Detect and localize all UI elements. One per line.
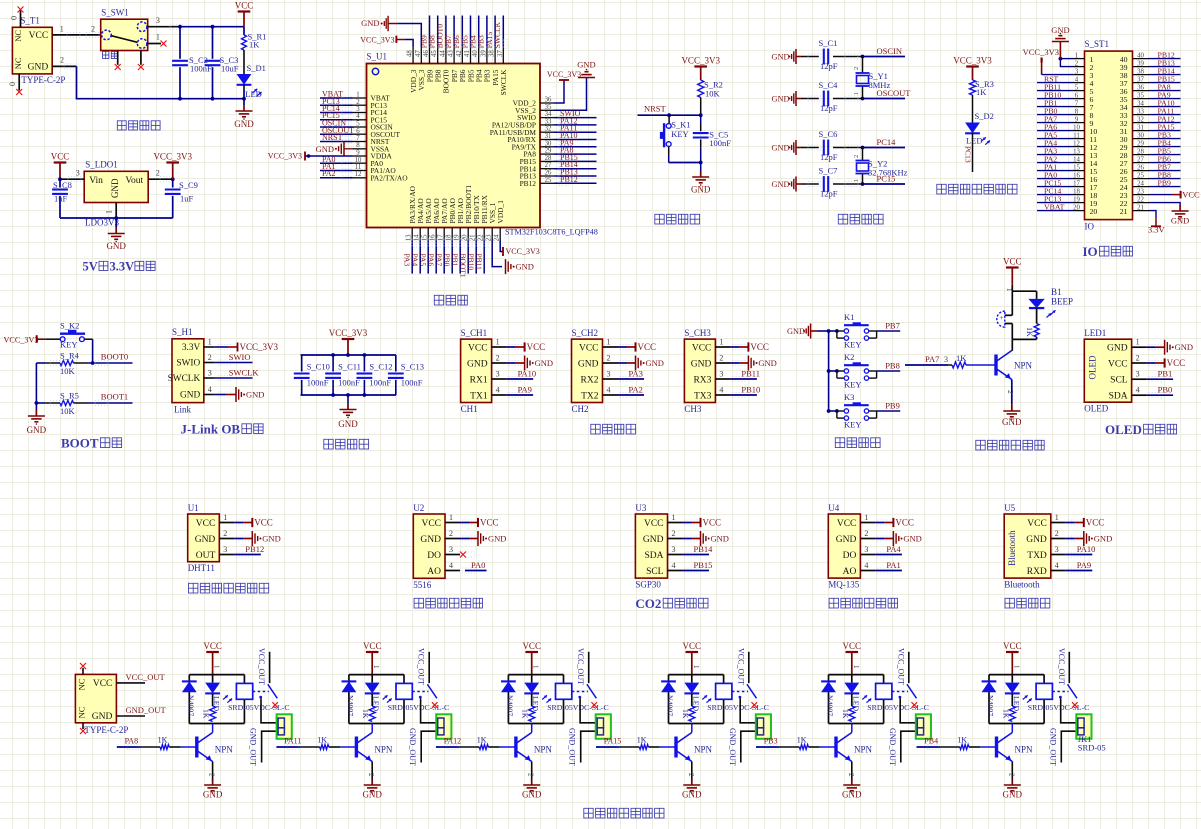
- svg-text:2: 2: [60, 56, 64, 65]
- svg-text:PA4: PA4: [410, 254, 419, 267]
- svg-text:6: 6: [356, 128, 360, 135]
- svg-text:GND: GND: [711, 534, 729, 544]
- svg-text:NC: NC: [76, 678, 86, 690]
- svg-text:VCC: VCC: [51, 152, 70, 162]
- svg-text:TXD: TXD: [1027, 551, 1047, 561]
- svg-text:3: 3: [607, 370, 611, 379]
- svg-text:GND: GND: [577, 60, 595, 70]
- svg-text:VCC_3V3: VCC_3V3: [681, 56, 720, 66]
- svg-text:VCC: VCC: [1167, 358, 1186, 368]
- svg-text:SDA: SDA: [1109, 392, 1128, 402]
- svg-text:PB7: PB7: [885, 321, 900, 331]
- svg-text:8MHz: 8MHz: [869, 80, 891, 90]
- svg-text:10uF: 10uF: [221, 63, 239, 73]
- svg-text:5516: 5516: [413, 580, 432, 590]
- svg-text:VCC: VCC: [579, 343, 599, 353]
- svg-text:15: 15: [422, 234, 429, 241]
- svg-text:40: 40: [1137, 52, 1144, 59]
- svg-text:GND: GND: [106, 241, 126, 251]
- svg-text:1: 1: [692, 665, 700, 669]
- svg-text:1: 1: [356, 92, 359, 99]
- svg-text:SWIO: SWIO: [229, 352, 251, 362]
- svg-text:1K: 1K: [957, 736, 967, 745]
- svg-text:LDO3V3: LDO3V3: [85, 218, 119, 228]
- svg-text:37: 37: [497, 50, 504, 57]
- svg-text:42: 42: [456, 50, 463, 57]
- svg-text:15: 15: [1073, 164, 1080, 171]
- svg-text:PB1: PB1: [1158, 369, 1173, 379]
- svg-text:1: 1: [864, 513, 868, 522]
- svg-text:8: 8: [1075, 108, 1079, 115]
- svg-text:Bluetooth: Bluetooth: [1004, 580, 1040, 590]
- svg-text:Vin: Vin: [89, 176, 103, 186]
- svg-text:LED: LED: [245, 89, 262, 99]
- svg-text:MQ-135: MQ-135: [828, 580, 859, 590]
- svg-text:VCC_OUT: VCC_OUT: [896, 648, 905, 685]
- svg-text:5: 5: [1075, 84, 1079, 91]
- svg-text:PB8: PB8: [885, 361, 900, 371]
- svg-text:RX2: RX2: [581, 375, 599, 385]
- svg-text:PC14: PC14: [877, 137, 897, 147]
- svg-text:16: 16: [1073, 172, 1080, 179]
- svg-text:GND: GND: [772, 144, 790, 153]
- svg-text:VCC: VCC: [235, 1, 254, 11]
- svg-text:2: 2: [1007, 773, 1015, 777]
- svg-text:PA10: PA10: [518, 369, 537, 379]
- svg-text:VCC_3V3: VCC_3V3: [1023, 47, 1059, 57]
- svg-text:PB12: PB12: [520, 179, 537, 188]
- svg-text:LED: LED: [966, 136, 983, 146]
- svg-text:1K: 1K: [841, 709, 850, 719]
- svg-text:SRD-05VDC-SL-C: SRD-05VDC-SL-C: [707, 703, 769, 712]
- svg-text:3.3V: 3.3V: [1148, 225, 1166, 235]
- svg-text:GND: GND: [92, 712, 113, 722]
- svg-text:KEY: KEY: [844, 420, 861, 430]
- svg-text:GND_OUT: GND_OUT: [888, 728, 897, 766]
- svg-text:1K: 1K: [249, 39, 260, 49]
- svg-text:RX3: RX3: [693, 375, 711, 385]
- svg-text:GND: GND: [691, 185, 711, 195]
- svg-text:27: 27: [545, 162, 552, 169]
- svg-text:GND_OUT: GND_OUT: [249, 728, 258, 766]
- svg-text:B1: B1: [1051, 287, 1062, 297]
- svg-text:2: 2: [449, 529, 453, 538]
- svg-text:PB10: PB10: [741, 385, 760, 395]
- svg-text:GND: GND: [842, 790, 862, 800]
- svg-text:S_C12: S_C12: [369, 362, 392, 372]
- svg-text:S_LDO1: S_LDO1: [85, 159, 118, 169]
- svg-text:2: 2: [156, 169, 160, 178]
- svg-text:3: 3: [208, 369, 212, 378]
- svg-text:SWCLK: SWCLK: [499, 69, 508, 96]
- svg-text:PB12: PB12: [560, 175, 578, 184]
- svg-text:32.768KHz: 32.768KHz: [868, 168, 908, 178]
- svg-text:2: 2: [1075, 60, 1079, 67]
- svg-text:1: 1: [223, 513, 227, 522]
- svg-text:SRD-05VDC-SL-C: SRD-05VDC-SL-C: [388, 703, 450, 712]
- svg-text:17: 17: [438, 234, 445, 241]
- svg-text:23: 23: [486, 234, 493, 241]
- svg-text:4: 4: [672, 561, 676, 570]
- svg-text:OUT: OUT: [196, 551, 216, 561]
- svg-text:PA2/TX/AO: PA2/TX/AO: [371, 173, 409, 182]
- svg-text:46: 46: [423, 50, 430, 57]
- svg-text:3: 3: [356, 106, 360, 113]
- svg-text:PA3: PA3: [402, 254, 411, 267]
- svg-text:0: 0: [10, 16, 19, 20]
- svg-text:8: 8: [356, 142, 360, 149]
- svg-text:3: 3: [1075, 68, 1079, 75]
- svg-text:GND_OUT: GND_OUT: [728, 728, 737, 766]
- svg-text:U4: U4: [828, 503, 839, 513]
- svg-text:VCC_3V3: VCC_3V3: [506, 247, 540, 256]
- svg-text:33: 33: [545, 118, 552, 125]
- svg-text:VCC_OUT: VCC_OUT: [126, 672, 166, 682]
- svg-text:4: 4: [719, 386, 723, 395]
- svg-text:S_U1: S_U1: [367, 52, 388, 62]
- svg-text:GND: GND: [1171, 216, 1189, 226]
- svg-text:VDD_1: VDD_1: [496, 200, 505, 224]
- svg-text:VCC: VCC: [692, 343, 712, 353]
- svg-text:3: 3: [1055, 545, 1059, 554]
- svg-text:2: 2: [687, 773, 695, 777]
- svg-text:24: 24: [494, 234, 501, 241]
- svg-text:12: 12: [355, 171, 362, 178]
- svg-text:2: 2: [356, 99, 360, 106]
- svg-text:PA9: PA9: [1077, 560, 1091, 570]
- svg-text:DO: DO: [843, 551, 857, 561]
- svg-text:NRST: NRST: [322, 133, 343, 142]
- svg-text:38: 38: [489, 50, 496, 57]
- svg-text:1: 1: [853, 92, 860, 95]
- svg-text:10: 10: [355, 157, 362, 164]
- svg-text:GND: GND: [535, 358, 553, 368]
- svg-text:VCC: VCC: [196, 519, 216, 529]
- svg-text:N4007: N4007: [505, 695, 514, 716]
- svg-text:24: 24: [1137, 180, 1144, 187]
- svg-text:4: 4: [208, 385, 212, 394]
- svg-text:2: 2: [672, 529, 676, 538]
- svg-text:GND: GND: [203, 790, 223, 800]
- svg-text:VCC: VCC: [29, 31, 49, 41]
- svg-text:TX3: TX3: [694, 391, 712, 401]
- svg-text:38: 38: [1137, 68, 1144, 75]
- svg-text:3.3V: 3.3V: [182, 343, 201, 353]
- svg-text:PB9: PB9: [885, 401, 900, 411]
- svg-text:PA7: PA7: [434, 254, 443, 267]
- svg-text:VCC: VCC: [644, 519, 664, 529]
- svg-text:3: 3: [223, 545, 227, 554]
- svg-text:31: 31: [545, 133, 552, 140]
- svg-text:GND: GND: [420, 535, 441, 545]
- svg-text:NPN: NPN: [854, 744, 873, 754]
- svg-text:7: 7: [1075, 100, 1079, 107]
- svg-text:GND: GND: [691, 359, 712, 369]
- svg-text:KEY: KEY: [671, 129, 688, 139]
- svg-text:1K: 1K: [797, 736, 807, 745]
- svg-text:2: 2: [1006, 390, 1015, 394]
- svg-text:S_ST1: S_ST1: [1085, 39, 1110, 49]
- svg-text:SWCLK: SWCLK: [168, 374, 201, 384]
- svg-text:VCC: VCC: [527, 342, 546, 352]
- svg-text:2: 2: [864, 529, 868, 538]
- svg-text:GND_OUT: GND_OUT: [568, 728, 577, 766]
- svg-text:2: 2: [1136, 354, 1140, 363]
- svg-text:1: 1: [60, 25, 64, 34]
- svg-text:10K: 10K: [60, 406, 76, 416]
- svg-text:1: 1: [719, 338, 723, 347]
- svg-text:Bluetooth: Bluetooth: [1007, 530, 1017, 566]
- svg-text:S_CH3: S_CH3: [684, 328, 711, 338]
- svg-text:1: 1: [372, 665, 380, 669]
- svg-text:PB9: PB9: [1158, 179, 1172, 188]
- svg-text:OLED: OLED: [1087, 355, 1097, 379]
- svg-text:VCC_OUT: VCC_OUT: [1057, 648, 1066, 685]
- svg-text:TX1: TX1: [470, 391, 488, 401]
- svg-text:GND: GND: [772, 95, 790, 104]
- svg-text:GND: GND: [516, 262, 534, 272]
- svg-text:PB1: PB1: [450, 254, 459, 267]
- svg-text:S_C11: S_C11: [338, 362, 361, 372]
- svg-text:13: 13: [406, 234, 413, 241]
- svg-text:19: 19: [454, 234, 461, 241]
- svg-text:GND: GND: [316, 144, 334, 154]
- svg-text:1: 1: [852, 665, 860, 669]
- svg-text:S_CH1: S_CH1: [461, 328, 488, 338]
- svg-text:NC: NC: [76, 706, 86, 718]
- svg-text:BOOT1: BOOT1: [101, 392, 128, 402]
- svg-text:S_SW1: S_SW1: [101, 8, 129, 18]
- svg-text:31: 31: [1137, 124, 1144, 131]
- svg-text:GND: GND: [361, 18, 379, 28]
- svg-text:N4007: N4007: [666, 695, 675, 716]
- svg-text:33: 33: [1137, 108, 1144, 115]
- svg-text:16: 16: [430, 234, 437, 241]
- svg-text:9: 9: [356, 150, 360, 157]
- svg-text:K1: K1: [844, 312, 854, 322]
- svg-text:1K: 1K: [477, 736, 487, 745]
- svg-text:KEY: KEY: [844, 340, 861, 350]
- svg-text:12pF: 12pF: [820, 189, 838, 199]
- svg-text:S_C4: S_C4: [819, 80, 839, 90]
- svg-text:PB12: PB12: [245, 544, 264, 554]
- svg-text:1: 1: [1055, 513, 1059, 522]
- svg-text:4: 4: [1075, 76, 1079, 83]
- svg-text:VCC: VCC: [1003, 257, 1022, 267]
- svg-text:1K: 1K: [637, 736, 647, 745]
- svg-text:13: 13: [1073, 148, 1080, 155]
- svg-text:GND_OUT: GND_OUT: [1048, 728, 1057, 766]
- svg-text:44: 44: [439, 50, 446, 57]
- svg-text:VCC: VCC: [254, 518, 273, 528]
- svg-text:PA10: PA10: [1077, 544, 1096, 554]
- svg-text:1uF: 1uF: [180, 194, 194, 204]
- svg-text:VCC_OUT: VCC_OUT: [736, 648, 745, 685]
- svg-text:1K: 1K: [681, 709, 690, 719]
- svg-text:1: 1: [1012, 665, 1020, 669]
- svg-text:PA6: PA6: [426, 254, 435, 267]
- svg-text:AO: AO: [427, 567, 441, 577]
- svg-text:SWCLK: SWCLK: [229, 368, 260, 378]
- svg-text:2: 2: [527, 773, 535, 777]
- svg-text:VBAT: VBAT: [1044, 203, 1065, 212]
- svg-text:IO: IO: [1085, 222, 1095, 232]
- svg-text:20: 20: [1090, 207, 1098, 216]
- svg-text:20: 20: [462, 234, 469, 241]
- svg-text:IO: IO: [1083, 244, 1098, 259]
- svg-text:26: 26: [1137, 164, 1144, 171]
- svg-text:VCC_3V3: VCC_3V3: [329, 328, 368, 338]
- svg-text:SDA: SDA: [644, 551, 663, 561]
- svg-text:10K: 10K: [60, 366, 76, 376]
- svg-text:1: 1: [1136, 338, 1140, 347]
- svg-text:1: 1: [496, 338, 500, 347]
- svg-text:100nF: 100nF: [307, 378, 329, 388]
- svg-text:NPN: NPN: [1015, 744, 1034, 754]
- svg-text:37: 37: [1137, 76, 1144, 83]
- svg-text:VCC: VCC: [638, 342, 657, 352]
- svg-text:26: 26: [545, 170, 552, 177]
- svg-text:K2: K2: [844, 352, 854, 362]
- svg-text:GND: GND: [110, 178, 120, 198]
- svg-text:9: 9: [1075, 116, 1079, 123]
- svg-text:10: 10: [1073, 124, 1080, 131]
- svg-text:SRD-05VDC-SL-C: SRD-05VDC-SL-C: [867, 703, 929, 712]
- svg-text:PB11: PB11: [741, 369, 760, 379]
- svg-text:RXD: RXD: [1027, 567, 1047, 577]
- svg-text:S_D1: S_D1: [247, 63, 266, 73]
- svg-text:12pF: 12pF: [820, 152, 838, 162]
- svg-text:S_C6: S_C6: [819, 129, 838, 139]
- svg-text:N4007: N4007: [986, 695, 995, 716]
- svg-text:1: 1: [1005, 288, 1013, 292]
- svg-text:VCC_OUT: VCC_OUT: [576, 648, 585, 685]
- svg-text:S_C1: S_C1: [819, 38, 838, 48]
- svg-text:5V: 5V: [83, 260, 98, 274]
- svg-text:GND_OUT: GND_OUT: [126, 705, 167, 715]
- svg-text:N4007: N4007: [826, 695, 835, 716]
- svg-text:S_R4: S_R4: [60, 351, 80, 361]
- svg-text:1: 1: [213, 665, 221, 669]
- svg-text:34: 34: [1137, 100, 1144, 107]
- svg-text:J-Link OB: J-Link OB: [181, 422, 241, 437]
- svg-text:VCC: VCC: [468, 343, 488, 353]
- svg-text:21: 21: [1120, 207, 1128, 216]
- svg-text:+: +: [1000, 314, 1004, 322]
- svg-text:DO: DO: [427, 551, 441, 561]
- svg-text:32: 32: [1137, 116, 1144, 123]
- svg-text:GND: GND: [772, 53, 790, 62]
- svg-text:PB15: PB15: [694, 560, 713, 570]
- svg-text:GND: GND: [1003, 790, 1023, 800]
- svg-text:3.3V: 3.3V: [110, 260, 135, 274]
- svg-text:1K: 1K: [1001, 709, 1010, 719]
- svg-text:1: 1: [156, 33, 160, 42]
- svg-text:100nF: 100nF: [401, 378, 423, 388]
- svg-text:25: 25: [1137, 172, 1144, 179]
- svg-text:GND: GND: [646, 358, 664, 368]
- svg-text:S_C7: S_C7: [819, 166, 838, 176]
- svg-text:GND: GND: [682, 790, 702, 800]
- svg-text:GND: GND: [195, 535, 216, 545]
- svg-text:1K: 1K: [361, 709, 370, 719]
- svg-text:25: 25: [545, 177, 552, 184]
- svg-text:12: 12: [1073, 140, 1080, 147]
- svg-text:GND_OUT: GND_OUT: [408, 728, 417, 766]
- svg-text:PA11: PA11: [284, 737, 301, 746]
- svg-text:4: 4: [496, 386, 500, 395]
- svg-text:NRST: NRST: [644, 104, 667, 114]
- svg-text:VCC_3V3: VCC_3V3: [547, 70, 581, 79]
- svg-text:GND: GND: [758, 358, 776, 368]
- svg-text:PA3: PA3: [629, 369, 643, 379]
- svg-text:S_D2: S_D2: [975, 111, 994, 121]
- svg-text:GND: GND: [578, 359, 599, 369]
- svg-text:PA0: PA0: [471, 560, 485, 570]
- svg-text:LED1: LED1: [1084, 328, 1106, 338]
- svg-text:45: 45: [431, 50, 438, 57]
- svg-text:STM32F103C8T6_LQFP48: STM32F103C8T6_LQFP48: [505, 228, 598, 237]
- svg-text:GND: GND: [262, 534, 280, 544]
- svg-text:PC13: PC13: [964, 146, 973, 163]
- svg-text:1: 1: [853, 179, 860, 182]
- svg-text:KEY: KEY: [844, 380, 861, 390]
- svg-text:PB0: PB0: [1158, 385, 1173, 395]
- svg-text:17: 17: [1073, 180, 1080, 187]
- svg-text:3: 3: [672, 545, 676, 554]
- svg-text:VCC_OUT: VCC_OUT: [417, 648, 426, 685]
- svg-text:GND: GND: [787, 327, 805, 336]
- svg-text:2: 2: [208, 773, 216, 777]
- svg-text:GND: GND: [234, 119, 254, 129]
- svg-text:U3: U3: [635, 503, 646, 513]
- svg-text:RX1: RX1: [470, 375, 488, 385]
- svg-text:GND: GND: [1107, 344, 1128, 354]
- svg-text:1K: 1K: [1025, 327, 1034, 337]
- svg-text:1K: 1K: [956, 353, 967, 363]
- svg-text:VCC: VCC: [522, 641, 541, 651]
- svg-text:VCC_3V3: VCC_3V3: [360, 36, 394, 45]
- svg-text:21: 21: [1137, 204, 1144, 211]
- svg-text:PA2: PA2: [322, 169, 336, 178]
- svg-text:21: 21: [470, 235, 477, 242]
- svg-text:VCC: VCC: [363, 641, 382, 651]
- svg-text:TX2: TX2: [581, 391, 599, 401]
- svg-text:2: 2: [847, 773, 855, 777]
- svg-text:12pF: 12pF: [820, 61, 838, 71]
- svg-text:39: 39: [480, 50, 487, 57]
- svg-text:SRD-05VDC-SL-C: SRD-05VDC-SL-C: [1028, 703, 1090, 712]
- svg-text:NPN: NPN: [694, 744, 713, 754]
- svg-text:100nF: 100nF: [709, 138, 731, 148]
- svg-text:20: 20: [1073, 204, 1080, 211]
- svg-text:TYPE-C-2P: TYPE-C-2P: [84, 725, 128, 735]
- svg-text:SRD-05VDC-SL-C: SRD-05VDC-SL-C: [228, 703, 290, 712]
- svg-text:1: 1: [672, 513, 676, 522]
- svg-text:14: 14: [414, 234, 421, 241]
- svg-text:PB11: PB11: [474, 254, 483, 271]
- svg-text:2: 2: [719, 354, 723, 363]
- svg-text:GND: GND: [1175, 342, 1193, 352]
- svg-text:4: 4: [449, 561, 453, 570]
- svg-text:23: 23: [1137, 188, 1144, 195]
- svg-text:VCC: VCC: [203, 641, 222, 651]
- svg-text:2: 2: [91, 25, 95, 34]
- svg-text:3: 3: [944, 355, 948, 364]
- svg-text:S_C13: S_C13: [401, 362, 424, 372]
- svg-text:30: 30: [545, 140, 552, 147]
- svg-text:SCL: SCL: [646, 567, 664, 577]
